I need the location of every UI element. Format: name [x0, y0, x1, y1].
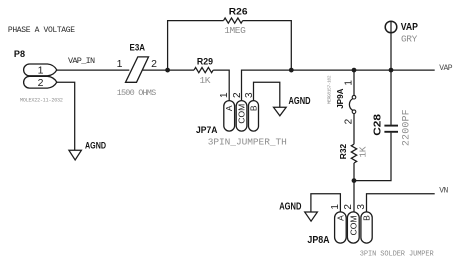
svg-text:AGND: AGND [85, 140, 106, 151]
svg-text:1500 OHMS: 1500 OHMS [117, 88, 156, 98]
svg-text:PHASE A VOLTAGE: PHASE A VOLTAGE [8, 26, 75, 35]
svg-text:P8: P8 [14, 49, 25, 60]
svg-text:2: 2 [343, 204, 354, 210]
svg-text:2: 2 [38, 77, 44, 89]
svg-text:3PIN SOLDER JUMPER: 3PIN SOLDER JUMPER [360, 251, 435, 259]
svg-text:2: 2 [344, 118, 355, 124]
svg-text:VAP: VAP [439, 64, 452, 73]
svg-text:COM: COM [348, 215, 358, 235]
svg-text:A: A [336, 215, 346, 221]
svg-text:1K: 1K [357, 146, 368, 157]
svg-text:GRY: GRY [401, 34, 418, 45]
svg-text:JP7A: JP7A [196, 125, 218, 136]
svg-text:R26: R26 [229, 7, 248, 18]
svg-text:VAP: VAP [401, 22, 418, 33]
svg-text:R32: R32 [338, 144, 348, 160]
svg-text:1: 1 [117, 58, 123, 70]
svg-text:MOLEX22-11-2032: MOLEX22-11-2032 [20, 97, 63, 103]
svg-text:C28: C28 [371, 114, 383, 136]
svg-text:2: 2 [151, 58, 157, 70]
svg-text:AGND: AGND [289, 96, 311, 107]
svg-text:JP8A: JP8A [307, 235, 329, 246]
svg-text:3: 3 [244, 92, 255, 98]
svg-text:1K: 1K [200, 75, 211, 86]
svg-text:3PIN_JUMPER_TH: 3PIN_JUMPER_TH [208, 136, 287, 147]
svg-text:1MEG: 1MEG [224, 25, 246, 36]
svg-text:VN: VN [439, 187, 448, 196]
svg-text:B: B [362, 215, 372, 221]
svg-text:VAP_IN: VAP_IN [68, 56, 95, 66]
svg-text:AGND: AGND [279, 202, 301, 213]
svg-text:COM: COM [237, 104, 247, 124]
svg-text:1: 1 [219, 92, 230, 98]
svg-text:1: 1 [38, 65, 44, 77]
svg-text:MERG8157-102: MERG8157-102 [326, 75, 332, 104]
svg-text:JP9A: JP9A [335, 89, 345, 109]
svg-text:R29: R29 [197, 57, 213, 68]
svg-text:A: A [224, 105, 234, 111]
svg-text:2200PF: 2200PF [402, 109, 413, 146]
svg-text:1: 1 [343, 80, 354, 86]
svg-text:3: 3 [356, 204, 367, 210]
svg-text:1: 1 [330, 204, 341, 210]
svg-text:2: 2 [232, 92, 243, 98]
svg-text:B: B [249, 105, 259, 111]
svg-text:E3A: E3A [130, 43, 146, 54]
